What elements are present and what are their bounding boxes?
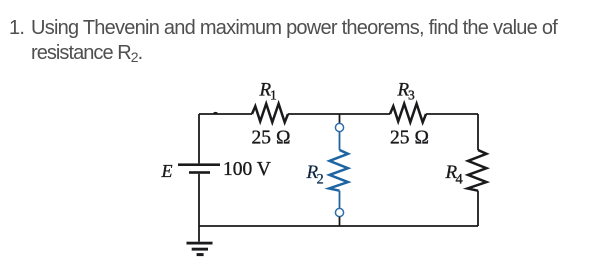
battery E bottom plate xyxy=(189,171,210,174)
problem statement line 1 xyxy=(9,18,24,38)
resistor R3 xyxy=(390,104,426,123)
svg-text:4: 4 xyxy=(456,172,464,188)
wire R1 to node A xyxy=(288,113,390,115)
svg-text:E: E xyxy=(161,161,173,181)
ground bar 2 xyxy=(192,248,208,251)
R2 bottom terminal circle xyxy=(335,208,343,216)
R2 top stub xyxy=(339,114,341,123)
resistor R1 xyxy=(252,104,288,123)
svg-text:25 Ω: 25 Ω xyxy=(252,127,291,148)
svg-text:25 Ω: 25 Ω xyxy=(390,127,429,148)
svg-text:3: 3 xyxy=(408,88,415,103)
battery E top plate xyxy=(178,163,220,166)
R2 bottom stub xyxy=(339,217,341,226)
wire top-left segment xyxy=(199,113,252,115)
left rail lower xyxy=(198,174,200,226)
svg-text:2: 2 xyxy=(317,172,324,188)
R2 top terminal circle xyxy=(335,123,343,131)
svg-text:1: 1 xyxy=(270,88,277,103)
ground bar 3 xyxy=(197,253,204,256)
wire R3 to top-right corner xyxy=(426,113,478,115)
ground bar 1 xyxy=(187,242,213,245)
left rail upper xyxy=(198,114,200,163)
right rail upper xyxy=(477,114,479,150)
bottom wire xyxy=(199,225,478,227)
resistor R2 xyxy=(329,150,348,191)
R2 top blue lead xyxy=(339,132,341,150)
resistor R4 xyxy=(468,150,487,191)
ground stub xyxy=(198,226,200,242)
svg-text:100 V: 100 V xyxy=(223,159,271,180)
problem statement line 2 xyxy=(31,43,142,64)
right rail lower xyxy=(477,191,479,226)
R2 bottom blue lead xyxy=(339,191,341,209)
junction dot xyxy=(213,112,217,115)
